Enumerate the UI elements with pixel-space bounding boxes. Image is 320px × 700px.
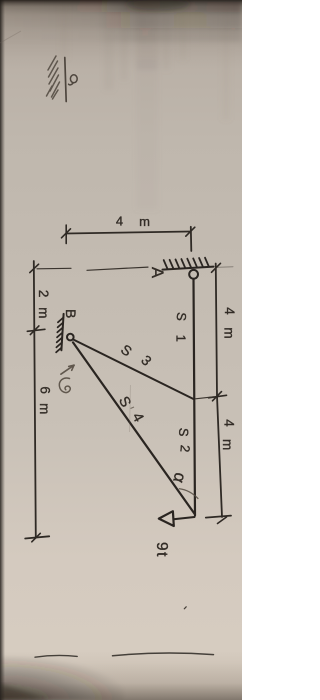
- svg-text:S: S: [176, 427, 192, 437]
- paper background: [0, 0, 242, 700]
- svg-text:4: 4: [116, 214, 123, 229]
- stray ink stroke bottom right: [113, 653, 214, 656]
- right dimension line (4m + 4m): [206, 263, 233, 523]
- svg-text:m: m: [220, 439, 235, 450]
- tiny ink speck: [184, 607, 186, 609]
- pencil scribble vertical line: [65, 58, 66, 102]
- svg-text:m: m: [37, 403, 52, 414]
- dimension text 2 m (rotated): [36, 290, 51, 319]
- bottom-left shadow: [0, 656, 124, 700]
- svg-text:4: 4: [222, 307, 237, 315]
- svg-text:m: m: [139, 214, 150, 229]
- member S1+S2 vertical chord: [194, 279, 196, 516]
- member label S 3: [118, 341, 155, 369]
- faint paper crease near S4 label: [130, 385, 131, 432]
- dimension text 4 m (top): [116, 214, 150, 230]
- load arrow 9t: [159, 511, 195, 526]
- top dark photo edge: [0, 0, 242, 58]
- member label S 2: [176, 427, 193, 453]
- extension line from top dimension to support A: [190, 227, 193, 251]
- member S4 diagonal: [73, 342, 195, 514]
- svg-text:B: B: [63, 309, 79, 318]
- bottom-left corner dark wedge: [0, 684, 50, 700]
- pencil scribble hatching top-left: [47, 56, 60, 99]
- svg-text:1: 1: [173, 335, 188, 342]
- support A hatching: [163, 258, 214, 270]
- pencil angle arc: [179, 489, 199, 499]
- tiny pencil tick between S and 4: [131, 407, 135, 409]
- dimension line 4 m top: [62, 225, 195, 244]
- faint paper crease top-left: [0, 31, 21, 43]
- svg-text:2: 2: [177, 444, 193, 453]
- pencil arrow annotation near B: [61, 365, 74, 374]
- dimension text 4 m (right upper, rotated): [222, 307, 238, 338]
- svg-text:4: 4: [222, 419, 237, 427]
- member label S 4: [115, 394, 146, 425]
- bottom dark photo edge: [0, 662, 242, 700]
- dashed construction line to node B level: [37, 267, 148, 270]
- left dimension line (2m + 6m): [25, 261, 49, 542]
- left dark photo edge: [0, 0, 5, 700]
- svg-text:m: m: [36, 307, 51, 318]
- dimension text 4 m (right lower, rotated): [220, 419, 237, 450]
- paper texture streaks: [60, 0, 230, 210]
- pin circle at A: [189, 270, 198, 279]
- dimension text 6 m (rotated): [37, 386, 53, 414]
- pin circle at B: [67, 334, 74, 341]
- svg-text:9t: 9t: [153, 542, 170, 558]
- extension line at middle node: [196, 397, 214, 399]
- svg-text:S: S: [174, 312, 190, 322]
- pencil scribble small e glyph: [69, 75, 78, 85]
- support B hatching: [56, 314, 64, 352]
- stray ink stroke bottom left: [35, 655, 77, 657]
- svg-text:2: 2: [36, 290, 51, 298]
- svg-text:m: m: [222, 327, 237, 338]
- pencil cursive G annotation: [59, 378, 70, 393]
- member label S 1: [173, 312, 189, 342]
- member S3 diagonal: [74, 340, 193, 399]
- svg-text:6: 6: [38, 386, 53, 394]
- top-right darker shading: [0, 0, 242, 42]
